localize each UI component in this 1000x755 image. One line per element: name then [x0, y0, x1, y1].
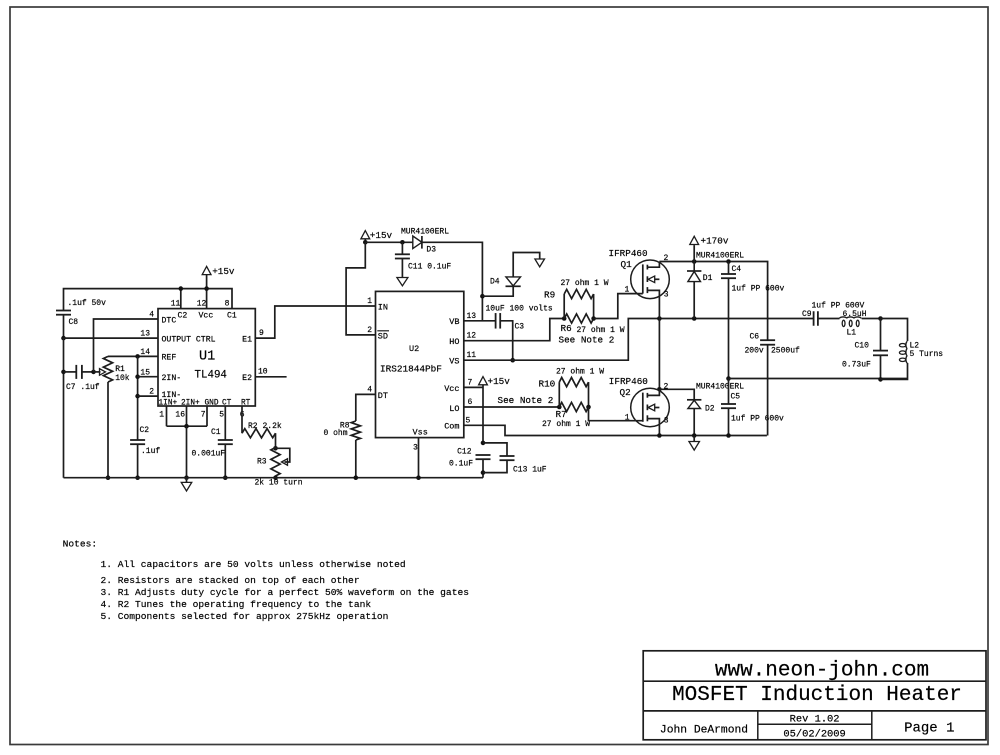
- capacitor C2: [130, 439, 145, 441]
- node D2-gnd: [692, 433, 697, 438]
- svg-text:2.2k: 2.2k: [263, 422, 282, 431]
- wire E2 stub: [255, 376, 286, 378]
- capacitor C8: [56, 310, 71, 312]
- node C7 branch: [61, 370, 66, 375]
- wire REF vertical: [137, 356, 139, 440]
- wire R1 bottom: [107, 382, 109, 478]
- svg-text:DTC: DTC: [162, 316, 177, 325]
- diode D2 MUR4100ERL: [687, 399, 701, 401]
- node Q2 drain: [657, 387, 662, 392]
- node wiper junction: [91, 370, 96, 375]
- svg-text:C9: C9: [802, 310, 812, 319]
- svg-text:C5: C5: [731, 393, 741, 402]
- node C5-gnd: [726, 433, 731, 438]
- svg-text:VS: VS: [449, 357, 459, 367]
- wire SD tie-high: [346, 242, 375, 335]
- wire pin5 CT: [224, 406, 226, 440]
- resistor R8 0 ohm: [351, 421, 360, 440]
- wire L1 to C10: [862, 318, 881, 320]
- svg-text:MOSFET Induction Heater: MOSFET Induction Heater: [672, 684, 962, 707]
- diode D1 MUR4100ERL: [693, 262, 695, 272]
- svg-text:16: 16: [175, 411, 185, 420]
- node +15v junction: [363, 240, 368, 245]
- resistor R7: [559, 402, 588, 411]
- node C4 top: [726, 259, 731, 264]
- diode D3 MUR4100ERL: [413, 236, 422, 249]
- node VS-Q1source: [657, 316, 662, 321]
- node 2IN-: [135, 374, 140, 379]
- wire pin15 2IN-: [138, 376, 158, 378]
- ground symbol U1: [186, 478, 188, 483]
- svg-text:IRS21844PbF: IRS21844PbF: [380, 364, 442, 375]
- svg-text:MUR4100ERL: MUR4100ERL: [696, 252, 744, 261]
- svg-text:U1: U1: [199, 350, 215, 365]
- svg-text:C12: C12: [457, 447, 472, 456]
- svg-text:C4: C4: [732, 265, 742, 274]
- svg-text:E1: E1: [242, 335, 252, 344]
- svg-text:C2: C2: [178, 311, 188, 320]
- svg-text:See Note 2: See Note 2: [559, 335, 615, 346]
- node C1-gnd: [223, 475, 228, 480]
- node C10 top: [878, 316, 883, 321]
- svg-text:CT: CT: [222, 400, 232, 408]
- capacitor C13: [483, 443, 507, 456]
- svg-text:3: 3: [664, 417, 669, 426]
- svg-text:1: 1: [159, 411, 164, 420]
- svg-text:.1uf: .1uf: [141, 447, 160, 456]
- svg-text:OUTPUT CTRL: OUTPUT CTRL: [162, 335, 216, 344]
- svg-text:C3: C3: [515, 323, 525, 332]
- svg-text:SD: SD: [378, 331, 388, 341]
- op-amp U2 box: [376, 291, 464, 437]
- svg-text:HO: HO: [449, 337, 459, 347]
- wire Vss pin3: [418, 438, 420, 478]
- node D4 branch: [480, 294, 485, 299]
- svg-text:5: 5: [219, 411, 224, 420]
- wire C1 bottom: [224, 444, 226, 478]
- node R6 left: [562, 316, 567, 321]
- op-amp U1 box: [158, 309, 255, 406]
- node R6 right: [591, 316, 596, 321]
- wire R2 to R3: [275, 433, 277, 447]
- node R8-gnd: [354, 475, 359, 480]
- wire L2 bottom: [881, 363, 908, 379]
- wire VS rail: [659, 318, 813, 320]
- svg-text:D4: D4: [490, 278, 500, 287]
- svg-text:5: 5: [466, 417, 471, 426]
- svg-text:4. R2 Tunes the operating freq: 4. R2 Tunes the operating frequency to t…: [101, 599, 372, 610]
- svg-text:Vcc: Vcc: [199, 311, 214, 320]
- capacitor C7: [64, 371, 77, 373]
- svg-text:05/02/2009: 05/02/2009: [783, 728, 845, 740]
- wire +15v top rail: [64, 289, 233, 310]
- wire gnd drop: [186, 426, 188, 478]
- node U1 gnd: [184, 475, 189, 480]
- node C11 junction: [400, 240, 405, 245]
- wire C2 bottom: [137, 444, 139, 478]
- svg-text:MUR4100ERL: MUR4100ERL: [401, 228, 449, 237]
- diode D4: [506, 285, 521, 287]
- wire pin12 stub: [206, 274, 208, 308]
- svg-text:5. Components selected for app: 5. Components selected for approx 275kHz…: [101, 611, 389, 622]
- svg-text:3: 3: [664, 290, 669, 299]
- svg-text:D3: D3: [426, 246, 436, 255]
- wire +15v to D3: [365, 241, 413, 243]
- power +15v arrow D3: [361, 231, 370, 239]
- wire C6 lower: [767, 344, 769, 435]
- svg-text:R10: R10: [539, 378, 556, 389]
- svg-text:C1: C1: [227, 311, 237, 320]
- arrow down D4 return: [535, 259, 545, 267]
- node C4-C5 junction: [726, 376, 731, 381]
- wire left rail down: [63, 338, 65, 478]
- svg-text:2k 10 turn: 2k 10 turn: [255, 479, 303, 488]
- svg-text:IFRP460: IFRP460: [609, 376, 648, 387]
- svg-text:C13 1uF: C13 1uF: [513, 466, 547, 475]
- svg-text:9: 9: [259, 329, 264, 338]
- resistor R2 2.2k: [242, 429, 276, 438]
- node D1 top: [692, 259, 697, 264]
- node junction pin11: [179, 286, 184, 291]
- title block box: [643, 651, 986, 740]
- svg-text:R3: R3: [257, 458, 267, 467]
- wire pin6 RT: [241, 406, 243, 433]
- svg-text:11: 11: [467, 351, 477, 360]
- power +15v arrow U1: [202, 266, 211, 274]
- svg-text:C8: C8: [69, 318, 79, 327]
- capacitor C1: [218, 439, 233, 441]
- svg-text:1: 1: [625, 285, 630, 294]
- svg-text:2: 2: [149, 388, 154, 397]
- wire C3 to VS: [500, 321, 513, 360]
- wire to L2: [881, 319, 908, 342]
- capacitor C12: [476, 454, 491, 456]
- svg-text:.1uf 50v: .1uf 50v: [68, 299, 107, 308]
- node C3-VS: [510, 358, 515, 363]
- potentiometer R1 10k: [103, 356, 112, 382]
- node R7 left: [557, 405, 562, 410]
- svg-text:6.5uH: 6.5uH: [843, 310, 867, 319]
- svg-text:D2: D2: [705, 405, 715, 414]
- svg-text:Page 1: Page 1: [904, 720, 954, 736]
- svg-text:Q1: Q1: [621, 259, 633, 270]
- svg-text:+170v: +170v: [701, 236, 729, 247]
- capacitor C4: [728, 262, 730, 275]
- power +170v arrow: [693, 245, 695, 261]
- svg-text:10uF 100 volts: 10uF 100 volts: [486, 304, 553, 313]
- wire HO to gate resistors: [464, 319, 564, 341]
- node R7 right: [586, 405, 591, 410]
- wire R8 bottom: [355, 440, 357, 478]
- node C12 top: [481, 441, 486, 446]
- svg-text:R9: R9: [544, 290, 555, 301]
- capacitor C10: [880, 319, 882, 351]
- svg-text:R7: R7: [556, 409, 567, 420]
- wire D4 branch: [482, 286, 513, 296]
- svg-text:10: 10: [258, 368, 268, 377]
- svg-text:200v: 200v: [745, 347, 764, 356]
- wire D3 to VB drop: [422, 242, 483, 320]
- svg-text:1IN+: 1IN+: [159, 400, 178, 408]
- svg-text:VB: VB: [449, 317, 459, 327]
- capacitor C11: [401, 242, 403, 254]
- svg-text:11: 11: [171, 300, 181, 309]
- svg-text:0.1uF: 0.1uF: [449, 460, 473, 469]
- node C10 bottom: [878, 377, 883, 382]
- capacitor C5: [728, 379, 730, 405]
- svg-text:8: 8: [225, 300, 230, 309]
- svg-text:2IN-: 2IN-: [162, 374, 182, 383]
- wire R1 wiper arrow: [94, 371, 101, 373]
- wire VB: [464, 320, 496, 322]
- wire C9 to L1: [818, 318, 840, 320]
- wire pin14 REF: [108, 355, 158, 357]
- node C8-OUTPUTCTRL: [61, 336, 66, 341]
- svg-text:2IN+: 2IN+: [181, 400, 200, 408]
- node R3-gnd: [273, 475, 278, 480]
- svg-text:U2: U2: [409, 344, 419, 354]
- capacitor C9: [813, 311, 815, 326]
- ground symbol main: [693, 436, 695, 442]
- wire Vcc vertical: [482, 385, 484, 443]
- svg-text:2: 2: [664, 382, 669, 391]
- wire DT: [356, 394, 376, 421]
- inductor L1 6.5uH: [840, 317, 862, 319]
- svg-text:4: 4: [367, 386, 372, 395]
- svg-text:Rev 1.02: Rev 1.02: [790, 714, 840, 726]
- capacitor C6: [760, 339, 775, 341]
- node VS-D1: [692, 316, 697, 321]
- svg-text:TL494: TL494: [195, 370, 227, 382]
- svg-text:7: 7: [468, 379, 473, 388]
- node R3 top: [273, 446, 278, 451]
- wire R7 to Q2 gate: [589, 407, 643, 421]
- wire C12 bottom: [482, 459, 484, 478]
- svg-text:7: 7: [201, 411, 206, 420]
- transistor Q2 IFRP460: [631, 388, 670, 427]
- wire pin2 1IN-: [138, 395, 158, 397]
- wire +15v stem: [364, 239, 366, 242]
- svg-text:0.001uF: 0.001uF: [192, 450, 226, 459]
- svg-text:C10: C10: [855, 342, 870, 351]
- svg-text:+15v: +15v: [212, 266, 235, 277]
- svg-text:E2: E2: [242, 374, 252, 383]
- wire pin13 OUTPUT CTRL: [64, 337, 159, 339]
- svg-text:John DeArmond: John DeArmond: [660, 724, 748, 736]
- wire E1 to U2 IN: [255, 306, 375, 338]
- svg-text:2: 2: [367, 326, 372, 335]
- svg-text:0.73uF: 0.73uF: [842, 361, 871, 370]
- wire +170v rail: [659, 262, 767, 341]
- svg-text:+15v: +15v: [370, 230, 393, 241]
- svg-text:12: 12: [197, 300, 207, 309]
- svg-text:C6: C6: [750, 332, 760, 341]
- ground arrow C11: [397, 278, 408, 286]
- node pin16 junction: [184, 424, 189, 429]
- svg-text:5 Turns: 5 Turns: [910, 350, 944, 359]
- wire Com: [464, 425, 767, 435]
- node Q2 source-gnd: [657, 433, 662, 438]
- wire pin11 stub: [180, 289, 182, 309]
- svg-text:+15v: +15v: [488, 376, 511, 387]
- svg-text:6: 6: [468, 398, 473, 407]
- svg-text:27 ohm 1 W: 27 ohm 1 W: [561, 279, 609, 288]
- svg-text:LO: LO: [449, 404, 459, 414]
- wire C7 to R1 wiper: [82, 371, 94, 373]
- node Vss-gnd: [416, 475, 421, 480]
- svg-text:Com: Com: [444, 422, 459, 432]
- wire ground rail: [64, 477, 484, 479]
- svg-text:2500uf: 2500uf: [771, 347, 800, 356]
- svg-text:R2: R2: [248, 422, 258, 431]
- svg-text:IN: IN: [378, 302, 388, 312]
- svg-text:DT: DT: [378, 391, 388, 401]
- resistor R6: [564, 314, 593, 323]
- svg-text:1uf PP 600v: 1uf PP 600v: [732, 285, 785, 294]
- svg-text:13: 13: [467, 312, 477, 321]
- svg-text:27 ohm 1 W: 27 ohm 1 W: [577, 326, 625, 335]
- wire D4 up: [513, 253, 540, 277]
- potentiometer R3: [271, 448, 280, 477]
- svg-text:IFRP460: IFRP460: [609, 248, 648, 259]
- svg-text:REF: REF: [162, 354, 177, 363]
- svg-text:C1: C1: [211, 428, 221, 437]
- svg-text:C11 0.1uF: C11 0.1uF: [408, 262, 451, 271]
- svg-text:10k: 10k: [115, 374, 130, 383]
- svg-text:2. Resistors are stacked on to: 2. Resistors are stacked on top of each …: [101, 575, 360, 586]
- svg-text:1uf PP 600v: 1uf PP 600v: [731, 415, 784, 424]
- svg-text:15: 15: [140, 368, 150, 377]
- svg-text:L1: L1: [847, 329, 857, 338]
- node junction pin12: [204, 286, 209, 291]
- wire VS: [464, 319, 660, 361]
- wire C8 to node: [63, 315, 65, 338]
- node C12 bottom: [481, 470, 486, 475]
- svg-text:3: 3: [413, 444, 418, 453]
- wire VS to Q2 drain: [658, 319, 660, 390]
- svg-text:4: 4: [149, 311, 154, 320]
- svg-text:Vcc: Vcc: [444, 384, 459, 394]
- node REF branch: [135, 354, 140, 359]
- wire R3 wiper loop: [276, 448, 290, 462]
- svg-text:Q2: Q2: [620, 387, 631, 398]
- node R1-gnd: [106, 475, 111, 480]
- resistor R9 parallel: [563, 294, 565, 319]
- wire Vcc: [464, 386, 483, 388]
- wire pin4 DTC: [94, 319, 159, 372]
- power +15v arrow Vcc: [479, 377, 488, 385]
- svg-text:13: 13: [140, 330, 150, 339]
- svg-text:Vss: Vss: [413, 428, 428, 438]
- svg-text:See Note 2: See Note 2: [498, 395, 554, 406]
- inductor L2 work coil: [906, 341, 908, 363]
- svg-text:Notes:: Notes:: [63, 538, 98, 549]
- transistor Q1 IFRP460: [631, 260, 670, 299]
- wire LO: [464, 406, 560, 408]
- svg-text:MUR4100ERL: MUR4100ERL: [696, 383, 744, 392]
- node C2-gnd: [135, 475, 140, 480]
- wire tank return: [729, 378, 908, 380]
- svg-text:R1: R1: [115, 365, 125, 374]
- wire Q2 drain to D2: [659, 389, 694, 400]
- node 1IN-: [135, 394, 140, 399]
- capacitor C3: [495, 313, 497, 329]
- svg-text:1: 1: [367, 297, 372, 306]
- wire U1 bottom pins 1,16,7: [166, 406, 168, 426]
- svg-text:0 ohm: 0 ohm: [323, 429, 347, 438]
- svg-text:D1: D1: [703, 274, 713, 283]
- svg-text:3. R1 Adjusts duty cycle for a: 3. R1 Adjusts duty cycle for a perfect 5…: [101, 587, 469, 598]
- svg-text:1. All capacitors are 50 volts: 1. All capacitors are 50 volts unless ot…: [101, 559, 406, 570]
- svg-text:27 ohm 1 W: 27 ohm 1 W: [556, 367, 604, 376]
- svg-text:27 ohm 1 W: 27 ohm 1 W: [542, 420, 590, 429]
- svg-text:12: 12: [467, 332, 477, 341]
- svg-text:www.neon-john.com: www.neon-john.com: [715, 660, 929, 683]
- svg-text:C7 .1uf: C7 .1uf: [66, 383, 100, 392]
- svg-text:14: 14: [140, 348, 150, 357]
- wire R6 to Q1 gate: [594, 294, 643, 319]
- svg-text:R6: R6: [561, 323, 572, 334]
- svg-text:C2: C2: [140, 426, 150, 435]
- resistor R10 parallel: [558, 382, 560, 407]
